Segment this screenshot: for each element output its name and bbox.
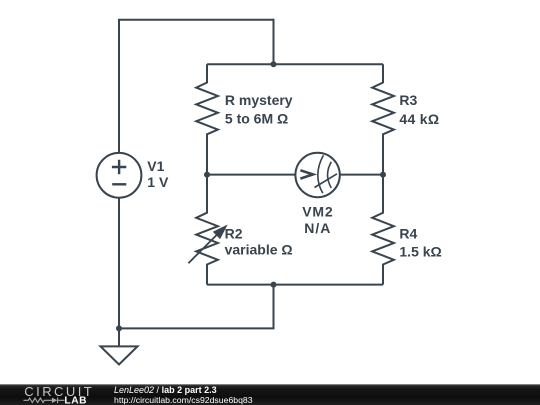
svg-text:5 to 6M Ω: 5 to 6M Ω bbox=[225, 111, 288, 127]
R2 arrow head bbox=[213, 225, 228, 240]
svg-text:1 V: 1 V bbox=[147, 174, 169, 190]
svg-text:R2: R2 bbox=[225, 225, 243, 241]
CircuitLab logo bbox=[0, 384, 110, 405]
svg-text:N/A: N/A bbox=[304, 220, 331, 236]
wire middle right segment (VM2 to node D) bbox=[340, 174, 383, 176]
resistor R2 (variable) bbox=[196, 175, 218, 285]
VM2 meter scale arc outer bbox=[318, 155, 324, 193]
svg-text:LAB: LAB bbox=[64, 396, 87, 405]
V1 minus sign bbox=[112, 183, 126, 185]
wire ground rail from ground junction right then up to bottom rail bbox=[119, 285, 274, 329]
resistor R4 bbox=[372, 175, 394, 285]
svg-text:1.5 kΩ: 1.5 kΩ bbox=[399, 244, 441, 260]
wire bottom rail of bridge (node B) bbox=[207, 284, 383, 286]
voltage source V1 body bbox=[97, 153, 142, 198]
junction node at ground rail bbox=[116, 325, 122, 331]
svg-text:VM2: VM2 bbox=[302, 203, 333, 219]
junction node A (top rail) bbox=[271, 61, 277, 67]
R2 variable-resistor arrow shaft bbox=[188, 230, 221, 263]
junction node C (middle left) bbox=[204, 172, 210, 178]
junction node B (bottom rail) bbox=[271, 282, 277, 288]
V1 plus sign bbox=[112, 160, 126, 174]
wire top rail of bridge (node A) bbox=[207, 63, 383, 65]
credit text bbox=[114, 385, 253, 404]
voltmeter VM2 body bbox=[295, 153, 339, 197]
resistor R3 bbox=[372, 64, 394, 174]
wire middle left segment (node C to VM2) bbox=[207, 174, 295, 176]
svg-text:R4: R4 bbox=[399, 225, 417, 241]
footer bar bbox=[0, 384, 540, 405]
junction node D (middle right) bbox=[380, 172, 386, 178]
wire from V1 + terminal up, across top, down to node A stem bbox=[119, 20, 274, 153]
svg-text:R mystery: R mystery bbox=[225, 92, 293, 108]
VM2 pointer chevron bbox=[300, 170, 313, 178]
svg-text:V1: V1 bbox=[147, 158, 164, 174]
VM2 meter scale arc inner bbox=[328, 162, 332, 188]
resistor R mystery bbox=[196, 64, 218, 174]
svg-text:44 kΩ: 44 kΩ bbox=[399, 111, 439, 127]
VM2 meter needle bbox=[315, 174, 338, 188]
svg-text:R3: R3 bbox=[399, 92, 417, 108]
ground bbox=[101, 346, 138, 364]
wire from V1 - terminal down to ground rail bbox=[118, 198, 120, 347]
svg-text:variable Ω: variable Ω bbox=[225, 242, 293, 258]
